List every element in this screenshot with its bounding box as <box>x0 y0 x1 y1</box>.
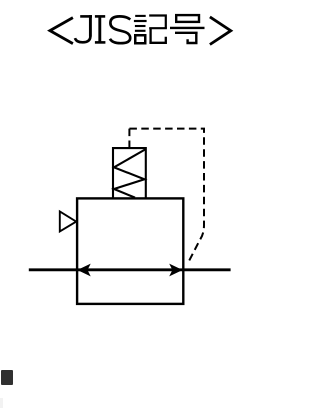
kanji GOU: long bar <box>170 27 205 29</box>
valve body box <box>77 198 183 304</box>
right arrowhead <box>169 264 182 277</box>
spring zigzag <box>114 149 145 197</box>
spring housing box <box>113 148 146 198</box>
kanji KI: bottom hook <box>149 37 165 43</box>
kanji GOU: second bar <box>175 32 198 34</box>
kanji KI (record) <box>134 16 167 44</box>
pilot line horizontal and down to outlet (dashed) <box>129 129 204 265</box>
letter I <box>95 16 106 43</box>
corner overlay square bottom left <box>1 370 13 385</box>
kanji KI: dot bar of speech radical <box>135 15 146 17</box>
title left angle bracket <box>50 18 73 44</box>
kanji KI: third bar <box>135 25 146 27</box>
relief vent triangle <box>60 212 76 232</box>
kanji KI: right middle bar <box>149 27 167 29</box>
kanji KI: fourth bar <box>135 30 146 32</box>
kanji KI: mouth box <box>135 35 145 43</box>
left arrowhead <box>77 264 90 277</box>
title right angle bracket <box>210 17 231 45</box>
letter S <box>110 16 130 43</box>
scrollbar sliver bottom left <box>0 398 3 408</box>
kanji KI: long bar <box>134 20 147 22</box>
kanji GOU: mouth box <box>176 15 199 22</box>
kanji KI: right top bend <box>149 16 166 29</box>
flow line horizontal <box>29 268 231 271</box>
kanji GOU (sign) <box>170 15 205 43</box>
pilot line (dashed) from spring top around to outlet <box>128 129 130 149</box>
kanji KI: right left vertical <box>149 28 151 43</box>
letter J <box>75 15 92 42</box>
kanji GOU: hook stroke <box>188 33 197 43</box>
